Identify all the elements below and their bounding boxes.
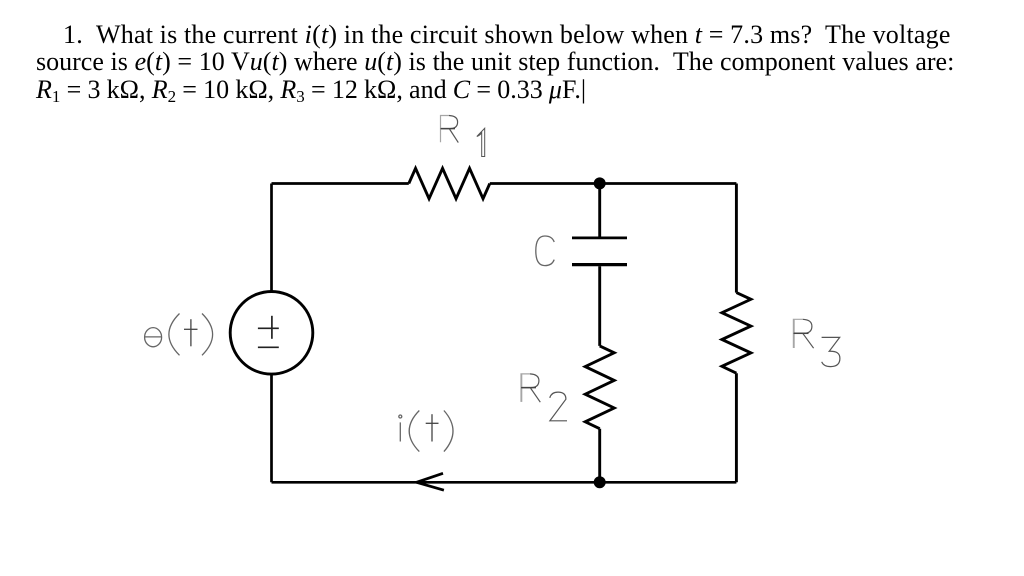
resistor R3: [722, 293, 751, 374]
minus sign of source: [258, 346, 279, 348]
wire middle upper vertical: [598, 183, 601, 236]
wire left upper vertical: [270, 184, 273, 292]
voltage source E1: [230, 292, 313, 375]
wire middle between C and R2: [598, 266, 601, 346]
resistor R2: [585, 346, 614, 429]
wire right upper vertical: [735, 184, 738, 293]
wire top-left horizontal: [272, 182, 409, 185]
capacitor C: [572, 238, 627, 265]
label e(t): [144, 314, 212, 356]
label C (capacitor): [536, 236, 554, 266]
junction node bottom: [594, 476, 606, 488]
label R2: [521, 374, 567, 421]
label R3: [793, 319, 840, 366]
wire bottom horizontal: [272, 481, 737, 484]
label R1: [441, 116, 485, 157]
wire left lower vertical: [270, 374, 273, 482]
junction node top: [594, 177, 606, 189]
wire right lower vertical: [735, 373, 738, 482]
arrow i(t) direction: [417, 473, 444, 490]
wire top-right horizontal: [490, 182, 737, 185]
resistor R1: [409, 168, 490, 198]
plus sign of source: [258, 316, 279, 339]
wire middle lower vertical: [598, 429, 601, 483]
label i(t): [399, 411, 453, 452]
